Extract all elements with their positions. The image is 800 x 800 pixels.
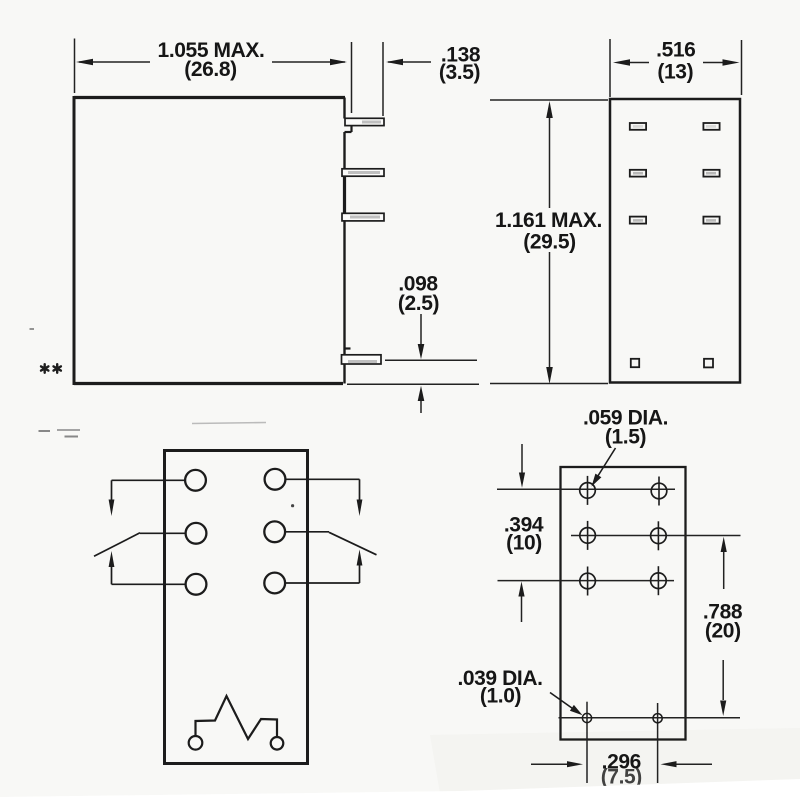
svg-text:1.161 MAX.: 1.161 MAX. xyxy=(495,209,602,232)
svg-text:(10): (10) xyxy=(506,532,542,555)
svg-text:(29.5): (29.5) xyxy=(523,231,575,254)
svg-text:(1.0): (1.0) xyxy=(480,685,521,708)
svg-text:(3.5): (3.5) xyxy=(439,61,480,84)
svg-text:.516: .516 xyxy=(656,39,695,62)
svg-text:(13): (13) xyxy=(657,61,693,84)
svg-text:(1.5): (1.5) xyxy=(605,426,646,449)
svg-text:(2.5): (2.5) xyxy=(398,292,439,315)
svg-text:(20): (20) xyxy=(705,620,741,643)
svg-text:(26.8): (26.8) xyxy=(184,58,236,81)
